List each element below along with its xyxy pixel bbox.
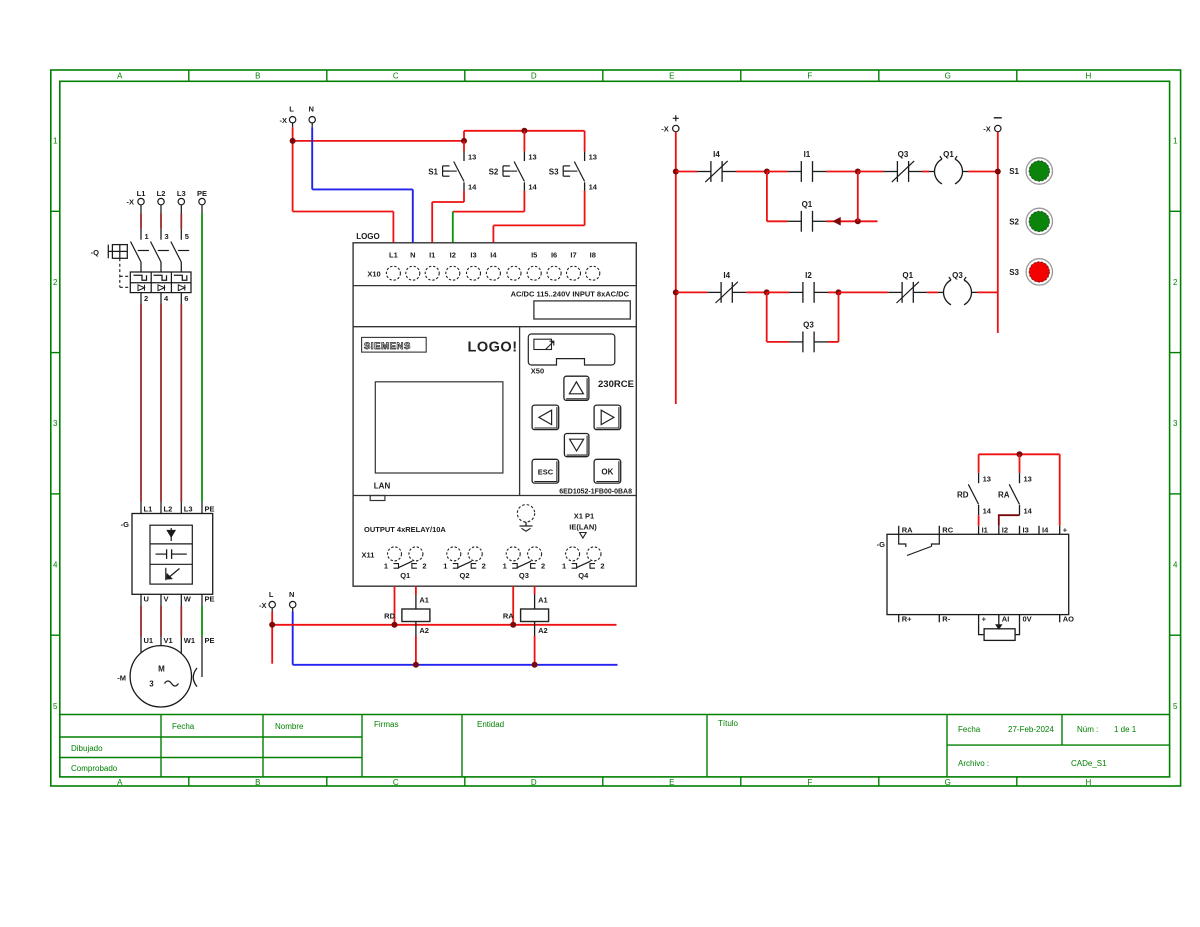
svg-text:1: 1 bbox=[562, 562, 566, 571]
svg-text:4: 4 bbox=[53, 561, 58, 570]
svg-text:A2: A2 bbox=[419, 626, 429, 635]
svg-text:E: E bbox=[669, 72, 674, 81]
svg-text:RA: RA bbox=[998, 491, 1010, 500]
svg-text:H: H bbox=[1086, 72, 1092, 81]
svg-text:6ED1052-1FB00-0BA8: 6ED1052-1FB00-0BA8 bbox=[559, 488, 632, 495]
svg-text:PE: PE bbox=[205, 636, 215, 645]
svg-text:Dibujado: Dibujado bbox=[71, 744, 103, 753]
svg-text:PE: PE bbox=[197, 189, 207, 198]
svg-text:-X: -X bbox=[983, 125, 991, 134]
svg-text:Título: Título bbox=[718, 719, 739, 728]
svg-text:G: G bbox=[945, 778, 951, 787]
svg-text:1: 1 bbox=[384, 562, 388, 571]
svg-text:Entidad: Entidad bbox=[477, 720, 504, 729]
svg-text:RC: RC bbox=[942, 526, 953, 535]
svg-text:Fecha: Fecha bbox=[172, 722, 195, 731]
svg-text:+: + bbox=[982, 615, 987, 624]
svg-text:CADe_S1: CADe_S1 bbox=[1071, 759, 1107, 768]
svg-text:L1: L1 bbox=[389, 250, 398, 259]
svg-text:I2: I2 bbox=[1002, 526, 1008, 535]
svg-text:I4: I4 bbox=[723, 271, 730, 280]
svg-text:V: V bbox=[164, 595, 169, 604]
svg-text:I6: I6 bbox=[551, 250, 557, 259]
svg-text:6: 6 bbox=[184, 294, 188, 303]
svg-text:-X: -X bbox=[259, 601, 267, 610]
svg-text:N: N bbox=[308, 105, 313, 114]
svg-text:Q3: Q3 bbox=[952, 271, 963, 280]
svg-text:3: 3 bbox=[149, 680, 154, 689]
svg-text:-G: -G bbox=[121, 520, 129, 529]
svg-text:N: N bbox=[289, 590, 294, 599]
svg-text:I3: I3 bbox=[1023, 526, 1029, 535]
svg-text:I3: I3 bbox=[470, 250, 476, 259]
svg-text:L3: L3 bbox=[177, 189, 186, 198]
svg-text:14: 14 bbox=[589, 183, 598, 192]
svg-text:G: G bbox=[945, 72, 951, 81]
svg-text:2: 2 bbox=[600, 562, 604, 571]
svg-text:ESC: ESC bbox=[538, 467, 554, 476]
svg-text:3: 3 bbox=[165, 232, 169, 241]
svg-text:14: 14 bbox=[1024, 507, 1033, 516]
svg-text:I8: I8 bbox=[590, 250, 596, 259]
svg-text:I4: I4 bbox=[1042, 526, 1049, 535]
svg-text:I5: I5 bbox=[531, 250, 537, 259]
svg-text:U1: U1 bbox=[144, 636, 154, 645]
svg-text:X11: X11 bbox=[362, 550, 375, 559]
svg-text:OUTPUT 4xRELAY/10A: OUTPUT 4xRELAY/10A bbox=[364, 525, 446, 534]
svg-text:14: 14 bbox=[528, 183, 537, 192]
svg-text:5: 5 bbox=[1173, 702, 1178, 711]
svg-text:Q4: Q4 bbox=[578, 571, 589, 580]
svg-text:L1: L1 bbox=[137, 189, 146, 198]
svg-text:1: 1 bbox=[443, 562, 447, 571]
svg-text:I7: I7 bbox=[570, 250, 576, 259]
svg-text:2: 2 bbox=[541, 562, 545, 571]
svg-text:2: 2 bbox=[1173, 278, 1178, 287]
svg-text:OK: OK bbox=[601, 467, 613, 476]
svg-text:Q3: Q3 bbox=[519, 571, 529, 580]
svg-text:RA: RA bbox=[503, 611, 514, 620]
svg-text:4: 4 bbox=[1173, 561, 1178, 570]
svg-text:2: 2 bbox=[53, 278, 58, 287]
svg-text:1: 1 bbox=[503, 562, 507, 571]
svg-text:13: 13 bbox=[589, 153, 597, 162]
svg-text:S2: S2 bbox=[1009, 218, 1019, 227]
svg-text:Núm :: Núm : bbox=[1077, 725, 1098, 734]
svg-text:LOGO: LOGO bbox=[356, 232, 380, 241]
svg-text:F: F bbox=[807, 778, 812, 787]
svg-text:I2: I2 bbox=[450, 250, 456, 259]
svg-text:Q3: Q3 bbox=[898, 150, 909, 159]
svg-text:S2: S2 bbox=[489, 168, 499, 177]
svg-text:V1: V1 bbox=[164, 636, 173, 645]
svg-text:AI: AI bbox=[1002, 615, 1010, 624]
svg-text:Firmas: Firmas bbox=[374, 720, 398, 729]
svg-text:-X: -X bbox=[127, 198, 135, 207]
svg-text:+: + bbox=[1063, 526, 1068, 535]
svg-text:Q1: Q1 bbox=[802, 200, 813, 209]
svg-text:W1: W1 bbox=[184, 636, 195, 645]
svg-text:L3: L3 bbox=[184, 505, 193, 514]
svg-text:13: 13 bbox=[983, 475, 991, 484]
svg-text:R-: R- bbox=[942, 615, 950, 624]
svg-text:L2: L2 bbox=[164, 505, 173, 514]
svg-text:3: 3 bbox=[53, 419, 58, 428]
svg-text:E: E bbox=[669, 778, 674, 787]
svg-text:Archivo :: Archivo : bbox=[958, 759, 989, 768]
svg-text:PE: PE bbox=[205, 595, 215, 604]
svg-text:L2: L2 bbox=[157, 189, 166, 198]
svg-text:-M: -M bbox=[117, 674, 126, 683]
svg-text:Q1: Q1 bbox=[400, 571, 410, 580]
svg-text:2: 2 bbox=[422, 562, 426, 571]
svg-text:SIEMENS: SIEMENS bbox=[364, 341, 411, 352]
svg-text:-Q: -Q bbox=[91, 248, 99, 257]
svg-text:-X: -X bbox=[280, 116, 288, 125]
svg-text:L: L bbox=[289, 105, 294, 114]
svg-text:LAN: LAN bbox=[374, 482, 391, 491]
svg-text:S1: S1 bbox=[1009, 167, 1019, 176]
svg-text:D: D bbox=[531, 72, 537, 81]
svg-text:F: F bbox=[807, 72, 812, 81]
svg-text:B: B bbox=[255, 778, 260, 787]
svg-text:LOGO!: LOGO! bbox=[468, 340, 518, 356]
svg-text:Q3: Q3 bbox=[803, 320, 814, 329]
svg-text:3: 3 bbox=[1173, 419, 1178, 428]
svg-text:S3: S3 bbox=[1009, 268, 1019, 277]
svg-text:L1: L1 bbox=[144, 505, 153, 514]
svg-text:H: H bbox=[1086, 778, 1092, 787]
svg-text:U: U bbox=[144, 595, 149, 604]
svg-text:I4: I4 bbox=[490, 250, 497, 259]
svg-text:-X: -X bbox=[661, 125, 669, 134]
svg-text:AO: AO bbox=[1063, 615, 1074, 624]
svg-text:R+: R+ bbox=[902, 615, 912, 624]
svg-text:RA: RA bbox=[902, 526, 913, 535]
svg-text:I1: I1 bbox=[982, 526, 988, 535]
svg-text:B: B bbox=[255, 72, 260, 81]
svg-text:I1: I1 bbox=[804, 150, 811, 159]
svg-text:Comprobado: Comprobado bbox=[71, 764, 118, 773]
svg-text:2: 2 bbox=[144, 294, 148, 303]
svg-text:14: 14 bbox=[468, 183, 477, 192]
svg-text:PE: PE bbox=[205, 505, 215, 514]
svg-text:230RCE: 230RCE bbox=[598, 379, 634, 390]
svg-text:Q2: Q2 bbox=[459, 571, 469, 580]
svg-text:C: C bbox=[393, 778, 399, 787]
svg-text:W: W bbox=[184, 595, 192, 604]
svg-text:14: 14 bbox=[983, 507, 992, 516]
svg-text:5: 5 bbox=[53, 702, 58, 711]
svg-text:S1: S1 bbox=[428, 168, 438, 177]
svg-text:RD: RD bbox=[957, 491, 969, 500]
svg-text:A: A bbox=[117, 778, 123, 787]
svg-text:13: 13 bbox=[528, 153, 536, 162]
svg-text:Q1: Q1 bbox=[902, 271, 913, 280]
svg-text:13: 13 bbox=[1024, 475, 1032, 484]
svg-text:IE(LAN): IE(LAN) bbox=[569, 523, 597, 532]
svg-text:1 de 1: 1 de 1 bbox=[1114, 725, 1137, 734]
svg-text:27-Feb-2024: 27-Feb-2024 bbox=[1008, 725, 1054, 734]
svg-text:D: D bbox=[531, 778, 537, 787]
svg-text:1: 1 bbox=[53, 137, 58, 146]
svg-text:X1 P1: X1 P1 bbox=[574, 512, 594, 521]
svg-text:13: 13 bbox=[468, 153, 476, 162]
svg-text:A: A bbox=[117, 72, 123, 81]
svg-text:Fecha: Fecha bbox=[958, 725, 981, 734]
svg-text:1: 1 bbox=[145, 232, 149, 241]
svg-text:Nombre: Nombre bbox=[275, 722, 304, 731]
svg-text:5: 5 bbox=[185, 232, 189, 241]
svg-text:I2: I2 bbox=[805, 271, 812, 280]
svg-text:X10: X10 bbox=[367, 269, 380, 278]
svg-text:RD: RD bbox=[384, 611, 395, 620]
svg-text:I1: I1 bbox=[429, 250, 435, 259]
svg-text:Q1: Q1 bbox=[943, 150, 954, 159]
svg-text:A1: A1 bbox=[538, 596, 548, 605]
svg-text:0V: 0V bbox=[1023, 615, 1032, 624]
svg-text:-G: -G bbox=[877, 540, 885, 549]
svg-text:L: L bbox=[269, 590, 274, 599]
svg-text:N: N bbox=[410, 250, 415, 259]
svg-text:A2: A2 bbox=[538, 626, 548, 635]
svg-text:S3: S3 bbox=[549, 168, 559, 177]
svg-text:A1: A1 bbox=[419, 596, 429, 605]
svg-text:2: 2 bbox=[482, 562, 486, 571]
svg-text:AC/DC 115..240V INPUT 8xAC/DC: AC/DC 115..240V INPUT 8xAC/DC bbox=[511, 290, 630, 299]
svg-text:C: C bbox=[393, 72, 399, 81]
svg-text:X50: X50 bbox=[531, 367, 544, 376]
svg-text:M: M bbox=[158, 665, 165, 674]
svg-text:I4: I4 bbox=[713, 150, 720, 159]
svg-text:1: 1 bbox=[1173, 137, 1178, 146]
